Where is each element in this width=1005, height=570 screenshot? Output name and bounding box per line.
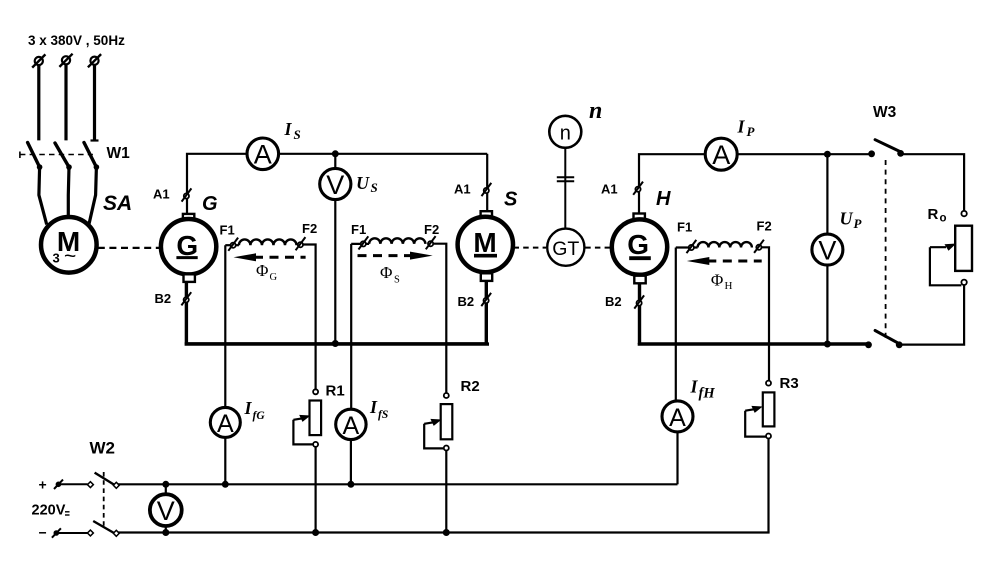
shaft coupling S to GT (dashed) — [514, 247, 547, 249]
svg-text:Φ: Φ — [711, 271, 723, 290]
wire V220 branch top — [165, 484, 167, 494]
rheostat R2 — [424, 393, 452, 451]
wire R3 to minus bus — [767, 439, 769, 533]
armature bottom bus (left loop) — [186, 342, 487, 344]
wire F2 to R3 corner — [762, 247, 769, 380]
svg-text:A: A — [712, 140, 730, 170]
node R2 on minus bus — [443, 529, 450, 536]
rheostat R1 — [293, 389, 321, 447]
terminal A1 of H — [633, 182, 643, 195]
svg-text:F1: F1 — [677, 220, 692, 235]
svg-text:S: S — [394, 274, 400, 285]
svg-text:V: V — [326, 170, 344, 200]
svg-text:B2: B2 — [155, 291, 172, 306]
svg-text:V: V — [818, 235, 836, 265]
node bottom of Us — [332, 340, 339, 347]
field winding of S — [369, 238, 425, 244]
wire R1 to minus bus — [315, 447, 317, 533]
svg-text:G: G — [202, 193, 218, 215]
switch W3 top contacts — [868, 140, 904, 158]
wire field S left leg — [350, 244, 352, 409]
wire W3 to Ro — [901, 154, 965, 211]
svg-text:R2: R2 — [461, 378, 480, 395]
terminal B2 of S — [481, 281, 491, 344]
wire plus to W2 — [60, 483, 88, 485]
svg-text:SA: SA — [103, 192, 132, 215]
svg-text:I: I — [737, 117, 746, 137]
wire IfH to plus bus — [676, 432, 678, 484]
terminal F2 of G field — [296, 237, 306, 250]
brush bottom of S — [481, 273, 492, 281]
node Up top — [824, 151, 831, 158]
svg-text:W3: W3 — [873, 104, 897, 121]
voltmeter V220 — [150, 494, 182, 526]
svg-text:fS: fS — [378, 409, 388, 421]
wire IfS to plus bus — [350, 440, 352, 485]
node top of Us — [332, 150, 339, 157]
terminal L1 — [32, 54, 45, 67]
svg-text:F2: F2 — [757, 219, 772, 234]
svg-text:G: G — [270, 272, 278, 283]
brush top of G — [183, 214, 194, 222]
svg-text:−: − — [39, 525, 47, 541]
terminal F1 of S field — [359, 236, 369, 249]
svg-text:A1: A1 — [454, 182, 471, 197]
wire phase1 top — [37, 66, 40, 141]
terminal F2 of S field — [426, 236, 436, 249]
voltmeter Us — [320, 168, 351, 199]
svg-text:F1: F1 — [220, 223, 235, 238]
svg-text:U: U — [356, 173, 370, 193]
field winding of G — [239, 239, 297, 245]
svg-text:B2: B2 — [605, 294, 622, 309]
wire H armature top — [639, 154, 872, 212]
field winding of H — [698, 242, 752, 247]
flux arrow PhiH (dashed, left) — [687, 257, 762, 265]
wire F2 to R1 corner — [304, 245, 316, 390]
svg-text:M: M — [473, 227, 496, 258]
svg-text:S: S — [294, 127, 301, 142]
switch W3 bottom contacts — [865, 331, 903, 349]
svg-text:A1: A1 — [153, 187, 170, 202]
wire phase3 to motor — [89, 167, 96, 224]
svg-text:H: H — [725, 280, 733, 292]
switch W1 pole2 blade — [55, 143, 72, 170]
wire Us voltmeter branch — [334, 154, 336, 344]
wire field G left leg — [224, 245, 226, 407]
field S: corner wire — [351, 243, 369, 245]
ammeter Is — [247, 138, 279, 170]
source terminal minus — [52, 528, 61, 537]
svg-text:A: A — [254, 140, 272, 170]
wire Ro to W3 bottom — [899, 285, 964, 345]
voltmeter Up — [812, 234, 843, 265]
svg-text:3 x 380V , 50Hz: 3 x 380V , 50Hz — [28, 33, 125, 48]
svg-text:o: o — [940, 213, 947, 225]
flux arrow PhiG (dashed, left) — [234, 253, 306, 261]
svg-text:fH: fH — [699, 386, 716, 402]
wire G armature top — [187, 154, 487, 214]
svg-text:F2: F2 — [424, 222, 439, 237]
svg-text:220V: 220V — [32, 503, 66, 519]
motor M 3~ — [41, 217, 97, 273]
node Up bottom — [824, 341, 831, 348]
terminal F1 of H field — [687, 240, 697, 253]
shaft coupling GT to H (dashed) — [585, 247, 611, 249]
switch W1 pole3 blade — [84, 143, 99, 170]
svg-text:B2: B2 — [458, 294, 475, 309]
node R1 on minus bus — [312, 529, 319, 536]
svg-text:W2: W2 — [90, 439, 116, 458]
brush bottom of H — [634, 276, 645, 284]
svg-text:+: + — [39, 477, 47, 493]
wire phase2 to motor — [67, 167, 71, 217]
svg-text:G: G — [627, 229, 649, 260]
switch W1 pole1 blade — [28, 143, 43, 170]
brush bottom of G — [184, 274, 195, 282]
svg-text:I: I — [284, 119, 293, 139]
armature bottom bus (right loop) — [640, 343, 869, 344]
wire phase1 to motor — [39, 167, 47, 224]
svg-text:n: n — [560, 122, 571, 144]
svg-text:F2: F2 — [302, 221, 317, 236]
field H: corner wire — [676, 246, 698, 248]
svg-text:R1: R1 — [326, 383, 345, 400]
svg-text:3: 3 — [53, 251, 60, 266]
rheostat R3 — [745, 381, 774, 439]
svg-text:Φ: Φ — [256, 261, 268, 280]
field G: F1 corner wire — [225, 244, 239, 246]
brush top of H — [634, 214, 645, 222]
terminal A1 of S — [482, 183, 492, 196]
ammeter IfH — [662, 401, 693, 432]
terminal B2 of H — [634, 283, 644, 344]
svg-text:R3: R3 — [780, 375, 799, 392]
wire phase3 top — [91, 65, 99, 141]
wire phase2 top — [64, 65, 67, 141]
svg-text:S: S — [371, 180, 378, 195]
switch W2 bottom — [87, 521, 119, 536]
svg-text:W1: W1 — [107, 145, 131, 162]
svg-text:~: ~ — [64, 245, 76, 268]
minus bus — [116, 531, 770, 533]
machine H — [612, 219, 667, 274]
svg-text:V: V — [157, 496, 175, 526]
wire R2 to minus bus — [445, 451, 447, 533]
svg-text:I: I — [690, 377, 699, 397]
wire field H left leg — [675, 248, 677, 402]
svg-text:P: P — [854, 216, 863, 231]
svg-text:fG: fG — [253, 410, 266, 422]
node V220 bottom — [162, 529, 169, 536]
svg-text:I: I — [244, 398, 253, 418]
svg-text:A: A — [669, 404, 686, 432]
wire F2 to R2 corner — [434, 244, 447, 393]
terminal F2 of H field — [754, 240, 764, 253]
rheostat Ro — [930, 211, 972, 285]
W2 gang dashed link — [103, 472, 105, 528]
svg-text:GT: GT — [552, 238, 579, 260]
ammeter Ip — [705, 138, 737, 170]
wire Up branch — [826, 154, 828, 344]
svg-text:A: A — [343, 412, 360, 440]
W1 gang dashed link — [20, 152, 93, 159]
svg-text:n: n — [589, 98, 602, 124]
svg-text:I: I — [369, 397, 378, 417]
wire IfG to plus bus — [224, 437, 226, 484]
ammeter IfG — [210, 407, 240, 438]
svg-text:F1: F1 — [351, 222, 366, 237]
svg-text:H: H — [656, 188, 671, 210]
svg-text:A: A — [217, 410, 234, 438]
W3 gang dashed link — [885, 160, 887, 338]
terminal B2 of G — [181, 282, 191, 344]
wire S armature top — [486, 154, 488, 211]
wire minus to W2 — [58, 532, 88, 534]
terminal L3 — [88, 54, 101, 67]
node V220 top — [162, 481, 169, 488]
ammeter IfS — [336, 409, 366, 440]
tachometer indicator n — [549, 116, 581, 148]
generator G — [161, 219, 216, 274]
machine S — [458, 217, 513, 272]
terminal A1 of G — [182, 188, 192, 201]
svg-text:Φ: Φ — [380, 263, 392, 282]
tachogenerator GT — [547, 229, 584, 266]
shaft n to GT with coupling ticks — [557, 148, 574, 229]
svg-text:S: S — [504, 189, 518, 211]
switch W2 top — [87, 473, 119, 489]
shaft coupling M to G (dashed) — [98, 247, 160, 249]
plus bus — [116, 483, 678, 485]
node IfG on plus bus — [222, 481, 229, 488]
svg-text:P: P — [747, 124, 756, 139]
source terminal plus — [54, 480, 63, 489]
svg-text:U: U — [840, 209, 854, 229]
wire V220 branch bottom — [165, 526, 167, 533]
brush top of S — [481, 211, 492, 219]
terminal F1 of G field — [228, 238, 238, 251]
label 220V — [32, 503, 70, 519]
node IfS on plus bus — [347, 481, 354, 488]
svg-text:R: R — [928, 206, 939, 223]
flux arrow PhiS (dashed, right) — [358, 252, 433, 260]
svg-text:A1: A1 — [601, 182, 618, 197]
terminal L2 — [59, 54, 72, 67]
